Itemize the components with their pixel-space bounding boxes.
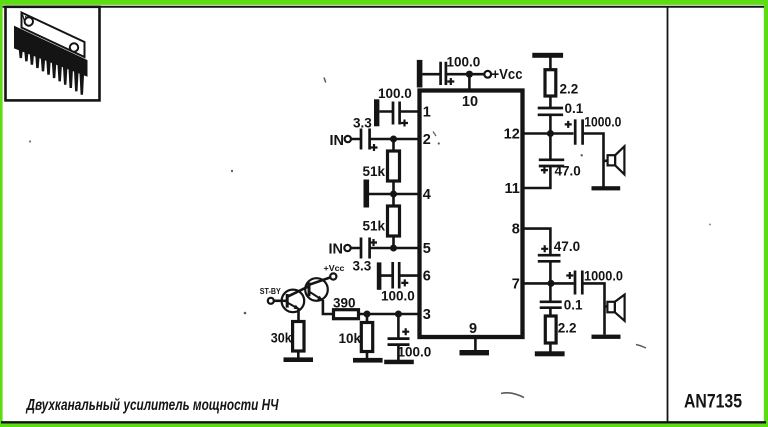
- wire 0.1b to 2.2b: [549, 308, 552, 316]
- wire pin1: [380, 110, 420, 113]
- plus C1000 bottom: [566, 272, 573, 279]
- node pin7: [548, 280, 555, 287]
- wire 0.1 to node12: [549, 116, 552, 135]
- wire pin3: [359, 313, 420, 316]
- capacitor 3.3 (pin5): [361, 238, 370, 259]
- capacitor 3.3 (pin2): [361, 129, 370, 150]
- svg-text:1: 1: [423, 105, 431, 121]
- node +Vcc top: [466, 71, 473, 78]
- node pin4: [390, 191, 397, 198]
- wire 1000 to speaker1: [584, 134, 608, 188]
- wire 2.2b to gnd: [549, 343, 552, 352]
- top frame line: [3, 6, 764, 8]
- right column separator line: [667, 7, 669, 422]
- ground (pin4): [364, 180, 370, 208]
- ground (pin3 cap): [384, 360, 414, 365]
- ground bars: [284, 53, 621, 364]
- resistor 30k: [293, 322, 304, 352]
- svg-text:IN: IN: [329, 242, 344, 258]
- svg-text:100.0: 100.0: [398, 345, 432, 360]
- wire Q1 emitter down: [297, 309, 300, 322]
- svg-text:3.3: 3.3: [353, 259, 372, 274]
- svg-text:0.1: 0.1: [564, 298, 583, 313]
- resistors: [293, 70, 556, 352]
- plus C1000 top: [565, 121, 572, 128]
- transistor Q2: [305, 278, 328, 301]
- svg-text:10: 10: [462, 94, 478, 110]
- tab hatch: [23, 15, 28, 23]
- svg-text:100.0: 100.0: [381, 289, 415, 304]
- wire R2 to node5: [392, 236, 395, 248]
- wire ch1 gnd to 2.2: [549, 58, 552, 70]
- tab hole left: [25, 17, 33, 25]
- capacitor 100.0 (pin6): [393, 262, 400, 289]
- bottom frame line: [1, 421, 766, 423]
- plus C3.3 pin5: [370, 239, 377, 246]
- svg-text:47.0: 47.0: [554, 239, 580, 254]
- wire node to pin10: [468, 74, 471, 90]
- resistor 2.2 bottom: [545, 316, 556, 343]
- plus marks: [370, 78, 573, 335]
- plus C100 pin3: [402, 328, 409, 335]
- terminal +V (Q2): [330, 273, 336, 279]
- capacitor 1000.0 (top): [575, 119, 582, 144]
- terminal ST-BY: [268, 298, 274, 304]
- plus C3.3 pin2: [371, 144, 378, 151]
- svg-text:9: 9: [469, 321, 477, 337]
- svg-text:5: 5: [423, 241, 431, 257]
- junction dots: [364, 71, 555, 318]
- svg-text:0.1: 0.1: [565, 101, 584, 116]
- svg-text:1000.0: 1000.0: [584, 269, 623, 284]
- wire pin12: [521, 132, 574, 135]
- wire pin6: [381, 274, 419, 277]
- node pin2: [390, 136, 397, 143]
- svg-text:7: 7: [512, 277, 520, 293]
- wire node7 to 0.1b: [549, 283, 552, 301]
- speaker 1: [608, 146, 625, 174]
- svg-text:100.0: 100.0: [378, 86, 412, 101]
- IC package picture box: [6, 7, 100, 101]
- wire node2 to R1: [392, 139, 395, 151]
- svg-text:8: 8: [512, 222, 520, 238]
- svg-text:10k: 10k: [339, 331, 362, 346]
- wire pin2: [351, 138, 419, 141]
- svg-text:ST-BY: ST-BY: [260, 287, 282, 296]
- capacitors vertical plates: [361, 62, 583, 295]
- capacitor 100.0 (top): [441, 62, 446, 85]
- wire pin7: [521, 282, 574, 285]
- svg-text:1000.0: 1000.0: [584, 114, 621, 129]
- wire Q1 collector to Q2 base: [287, 286, 309, 297]
- resistor 390: [334, 310, 359, 319]
- wire pin8: [521, 229, 550, 255]
- svg-text:3.3: 3.3: [353, 116, 372, 131]
- ground (ch2 bottom): [535, 351, 565, 356]
- wire cap to +Vcc terminal: [447, 73, 485, 76]
- wire 1000b to speaker2: [583, 283, 607, 334]
- wire 47 to pin11: [521, 167, 550, 189]
- resistor 2.2 top: [545, 70, 556, 96]
- svg-text:AN7135: AN7135: [684, 391, 742, 413]
- package body: [15, 27, 88, 77]
- ground (speaker1): [592, 186, 621, 190]
- ground (pin6 cap): [377, 262, 382, 289]
- svg-text:100.0: 100.0: [447, 55, 481, 70]
- svg-text:47.0: 47.0: [555, 163, 581, 178]
- wires left: [274, 112, 419, 361]
- capacitor 100.0 (pin1): [393, 102, 400, 125]
- node pin5: [390, 245, 397, 252]
- wire pin5: [351, 247, 419, 250]
- wire 30k to ground: [297, 351, 300, 358]
- svg-text:51k: 51k: [363, 219, 386, 234]
- plus C100 pin6: [401, 279, 408, 286]
- plus C100 top: [447, 78, 454, 85]
- wire pin9: [474, 337, 477, 351]
- svg-text:Двухканальный усилитель мощнос: Двухканальный усилитель мощности НЧ: [25, 397, 279, 414]
- node pin12: [547, 130, 554, 137]
- svg-text:11: 11: [504, 181, 519, 197]
- capacitor 47.0 (top): [539, 160, 564, 166]
- terminal IN 1: [345, 136, 351, 142]
- wire Q1 base: [274, 299, 287, 302]
- specks: [29, 78, 711, 398]
- capacitor 100.0 (pin3): [388, 339, 410, 345]
- svg-text:3: 3: [423, 307, 431, 323]
- speaker 2: [607, 295, 624, 321]
- capacitor 47.0 (bottom): [538, 255, 561, 261]
- ground (pin9): [460, 350, 490, 355]
- node 390/10k: [364, 311, 371, 318]
- ground (speaker2): [592, 335, 621, 339]
- svg-text:390: 390: [333, 296, 356, 311]
- ground (ch1 top): [532, 53, 563, 58]
- wire top gnd to cap: [422, 73, 439, 76]
- capacitor 0.1 (top): [538, 108, 563, 115]
- wires right: [521, 58, 608, 352]
- capacitor 0.1 (bottom): [540, 302, 562, 308]
- ground (30k): [284, 357, 314, 362]
- wire Q2 emitter to 390: [323, 300, 334, 314]
- wire Q2 collector to +V terminal: [309, 277, 330, 284]
- tab hole right: [70, 43, 78, 51]
- plus C47 top: [541, 167, 548, 174]
- transistor Q1: [282, 290, 305, 313]
- resistor 10k: [361, 323, 372, 352]
- wire 2.2 to 0.1: [549, 96, 552, 107]
- svg-text:4: 4: [423, 187, 431, 203]
- svg-text:+Vcc: +Vcc: [324, 264, 346, 273]
- svg-text:+Vcc: +Vcc: [492, 67, 523, 83]
- IC U1 body: [420, 91, 523, 338]
- capacitor 1000.0 (bottom): [575, 271, 582, 295]
- plus C47 bottom: [541, 245, 548, 252]
- ground (top cap): [417, 60, 423, 88]
- svg-text:2.2: 2.2: [558, 321, 577, 336]
- capacitors horizontal plates: [388, 108, 565, 345]
- pin numbers: [423, 94, 520, 337]
- wire cap pin3: [397, 314, 400, 360]
- package pins: [19, 47, 85, 95]
- svg-text:2.2: 2.2: [560, 82, 579, 97]
- terminal +Vcc (top): [484, 71, 491, 78]
- wires top: [422, 74, 484, 350]
- svg-text:51k: 51k: [363, 164, 386, 179]
- package heatsink tab: [22, 13, 85, 58]
- ground (10k): [353, 358, 383, 363]
- wire 47b to node7: [549, 262, 552, 285]
- plus C100 pin1: [401, 120, 408, 127]
- svg-text:30k: 30k: [271, 331, 292, 346]
- svg-text:2: 2: [423, 132, 431, 148]
- wire pin4: [369, 193, 419, 196]
- node pin3 cap: [395, 311, 402, 318]
- resistor 51k R2: [388, 206, 400, 236]
- wire R1 to node4: [392, 181, 395, 206]
- ground (pin1 cap): [374, 99, 379, 126]
- svg-text:6: 6: [423, 269, 431, 285]
- svg-text:IN: IN: [330, 133, 345, 149]
- svg-text:12: 12: [504, 127, 520, 143]
- resistor 51k R1: [388, 151, 400, 181]
- wire node12 to 47: [549, 134, 552, 160]
- wire 10k: [366, 314, 369, 358]
- terminal IN 2: [344, 245, 350, 251]
